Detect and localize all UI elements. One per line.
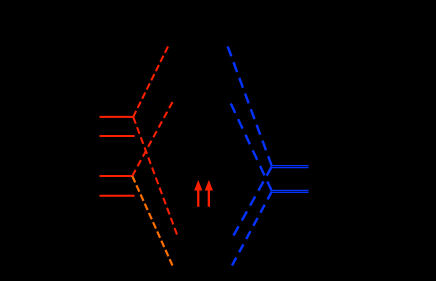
level L2 (left fragment upper pair, bottom) xyxy=(100,135,135,137)
level L4 (left fragment lower pair, bottom) xyxy=(100,195,135,197)
electron arrow 1 (spin up) xyxy=(194,180,202,207)
correlation line G: mid-center level down to B2 xyxy=(231,104,272,192)
level L3 (left fragment lower pair, top) xyxy=(100,175,133,177)
level B2 (right fragment lower, close doublet) xyxy=(272,189,309,191)
correlation line F: top-center level down to B1 xyxy=(228,47,272,167)
correlation line I: bottom-center level up to B2 xyxy=(232,192,272,266)
level B1 (right fragment upper, close doublet) xyxy=(272,165,309,167)
electron arrow 2 (spin up) xyxy=(205,180,213,207)
correlation line D: lower-center level up to L1 xyxy=(133,117,177,235)
correlation line C: mid-center level down to L3 xyxy=(132,102,172,176)
correlation line J: lower-center level up to B1 xyxy=(234,167,272,236)
level L1 (left fragment upper pair, top) xyxy=(100,116,134,118)
correlation line A: top-center level down to L1 xyxy=(133,47,168,117)
correlation line E (orange): bottom-center level up to L3 xyxy=(132,176,172,266)
